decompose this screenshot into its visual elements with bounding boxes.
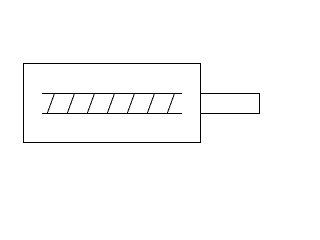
thread hatch slash 6 <box>147 94 154 114</box>
thread hatch slash 2 <box>67 94 74 114</box>
thread hatch slash 7 <box>167 94 174 114</box>
component body outline (outer rectangle) <box>23 63 201 143</box>
threaded core bottom line <box>42 113 182 114</box>
thread hatch slash 1 <box>47 94 54 114</box>
thread hatch slash 4 <box>107 94 114 114</box>
thread hatch slash 3 <box>87 94 94 114</box>
thread hatch slash 5 <box>127 94 134 114</box>
threaded core top line <box>42 93 182 94</box>
shaft stub (right-hand protruding rectangle) <box>201 93 260 114</box>
